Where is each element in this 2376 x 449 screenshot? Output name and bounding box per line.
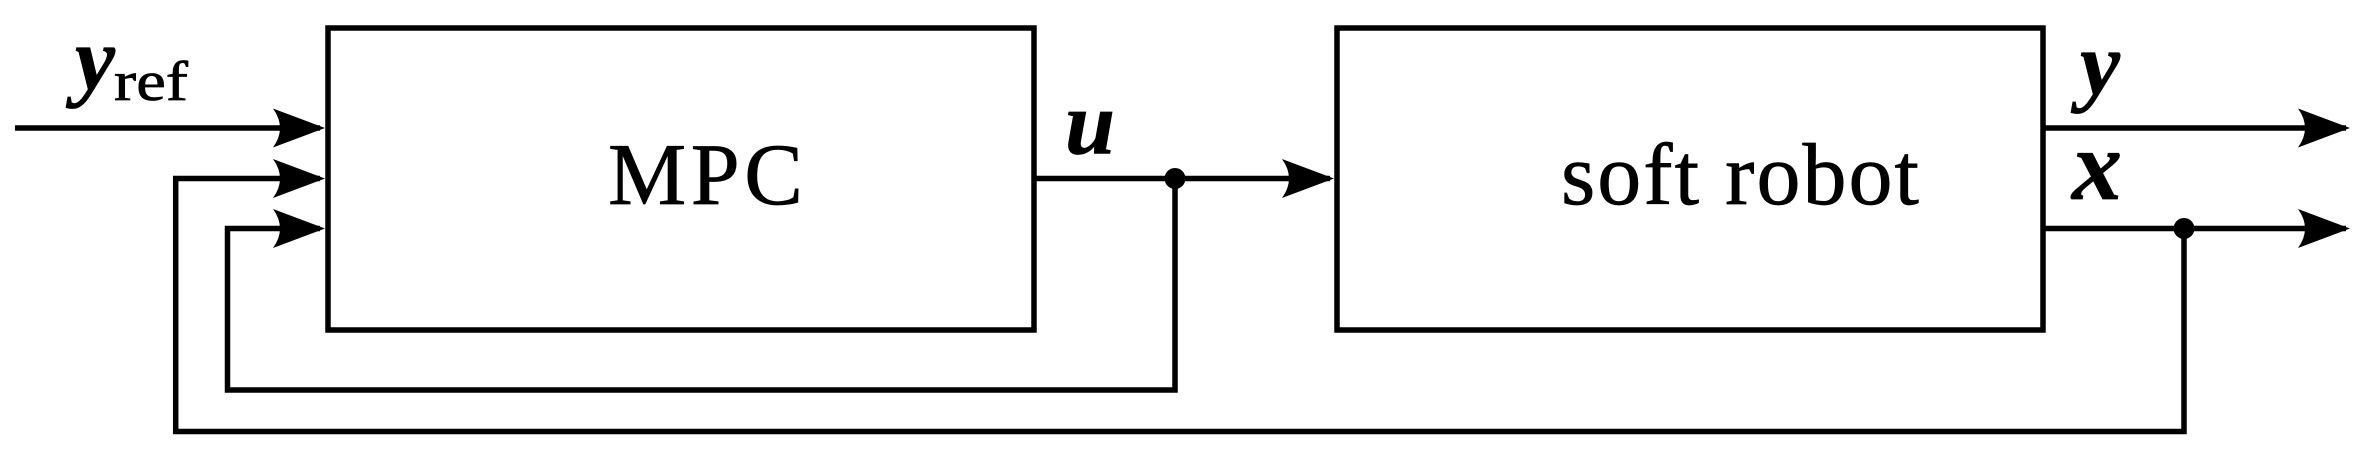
svg-text:u: u [1065,75,1115,174]
svg-text:MPC: MPC [608,127,803,224]
svg-text:ref: ref [114,51,188,113]
svg-text:x: x [2070,110,2122,221]
svg-text:y: y [65,10,116,109]
svg-text:soft robot: soft robot [1561,127,1919,224]
svg-text:y: y [2070,15,2121,114]
